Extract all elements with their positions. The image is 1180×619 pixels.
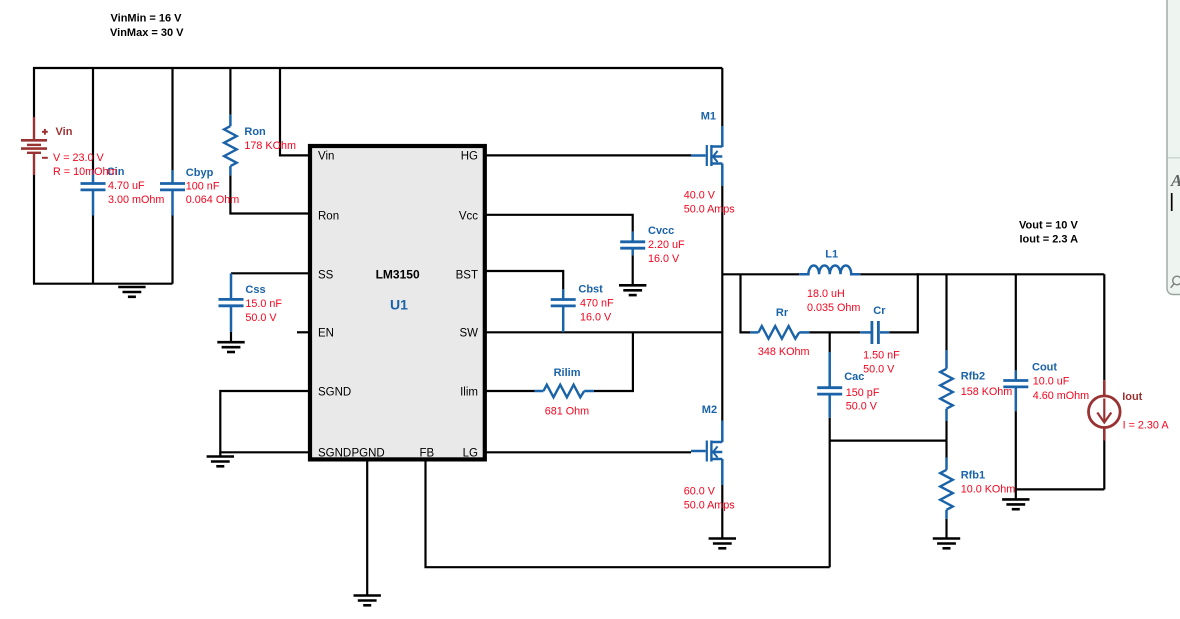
svg-text:Vin: Vin — [56, 126, 73, 138]
svg-text:FB: FB — [420, 448, 435, 460]
svg-text:60.0 V: 60.0 V — [684, 485, 716, 497]
svg-text:V = 23.0 V: V = 23.0 V — [53, 152, 105, 164]
svg-text:50.0 V: 50.0 V — [863, 363, 895, 375]
svg-text:470 nF: 470 nF — [580, 298, 614, 310]
svg-text:10.0 KOhm: 10.0 KOhm — [961, 484, 1016, 496]
svg-text:Rr: Rr — [776, 307, 789, 319]
svg-text:348 KOhm: 348 KOhm — [758, 346, 810, 358]
svg-text:Iout: Iout — [1122, 391, 1142, 403]
svg-text:Rfb2: Rfb2 — [961, 371, 985, 383]
svg-text:50.0 V: 50.0 V — [846, 401, 878, 413]
svg-text:40.0 V: 40.0 V — [684, 190, 716, 202]
svg-text:0.064 Ohm: 0.064 Ohm — [186, 194, 239, 206]
svg-text:Cvcc: Cvcc — [648, 225, 674, 237]
svg-text:HG: HG — [461, 151, 478, 163]
svg-text:Iout = 2.3 A: Iout = 2.3 A — [1020, 233, 1079, 245]
svg-text:PGND: PGND — [352, 448, 385, 460]
svg-text:Ron: Ron — [244, 126, 266, 138]
svg-text:Cbst: Cbst — [578, 284, 603, 296]
svg-text:LG: LG — [463, 448, 478, 460]
svg-text:EN: EN — [318, 327, 334, 339]
svg-text:1.50 nF: 1.50 nF — [863, 350, 900, 362]
svg-text:15.0 nF: 15.0 nF — [245, 298, 282, 310]
svg-text:50.0 Amps: 50.0 Amps — [684, 204, 736, 216]
svg-text:Rilim: Rilim — [554, 367, 581, 379]
svg-text:681 Ohm: 681 Ohm — [545, 405, 589, 417]
svg-text:L1: L1 — [825, 249, 838, 261]
svg-text:I = 2.30 A: I = 2.30 A — [1123, 419, 1170, 431]
svg-text:4.70 uF: 4.70 uF — [108, 180, 145, 192]
svg-text:M1: M1 — [701, 111, 716, 123]
svg-text:SS: SS — [318, 269, 334, 281]
svg-text:10.0 uF: 10.0 uF — [1033, 376, 1070, 388]
svg-text:150 pF: 150 pF — [846, 387, 880, 399]
svg-text:18.0 uH: 18.0 uH — [807, 288, 845, 300]
svg-text:50.0 V: 50.0 V — [245, 312, 277, 324]
svg-text:Cr: Cr — [873, 305, 886, 317]
svg-text:0.035 Ohm: 0.035 Ohm — [807, 302, 860, 314]
svg-text:A: A — [1170, 171, 1180, 190]
svg-text:SGND: SGND — [318, 448, 351, 460]
svg-text:Cout: Cout — [1032, 361, 1057, 373]
svg-text:Cbyp: Cbyp — [186, 167, 214, 179]
svg-text:VinMax = 30 V: VinMax = 30 V — [110, 27, 184, 39]
svg-text:Rfb1: Rfb1 — [961, 470, 985, 482]
svg-text:SGND: SGND — [318, 387, 351, 399]
svg-text:3.00 mOhm: 3.00 mOhm — [108, 194, 164, 206]
svg-text:U1: U1 — [390, 297, 408, 313]
svg-text:R = 10mOhm: R = 10mOhm — [53, 166, 118, 178]
svg-text:4.60 mOhm: 4.60 mOhm — [1033, 390, 1089, 402]
svg-text:M2: M2 — [702, 404, 717, 416]
svg-text:16.0 V: 16.0 V — [580, 312, 612, 324]
svg-text:100 nF: 100 nF — [186, 181, 220, 193]
svg-text:LM3150: LM3150 — [376, 268, 420, 282]
svg-text:SW: SW — [459, 327, 478, 339]
svg-text:Vcc: Vcc — [459, 211, 478, 223]
svg-text:50.0 Amps: 50.0 Amps — [684, 499, 736, 511]
svg-text:2.20 uF: 2.20 uF — [648, 239, 685, 251]
svg-text:Cac: Cac — [844, 371, 864, 383]
svg-text:VinMin = 16 V: VinMin = 16 V — [111, 13, 183, 25]
svg-text:Vin: Vin — [318, 151, 334, 163]
svg-text:16.0 V: 16.0 V — [648, 253, 680, 265]
svg-text:Ilim: Ilim — [460, 387, 478, 399]
svg-text:Ron: Ron — [318, 211, 339, 223]
svg-text:Vout = 10 V: Vout = 10 V — [1019, 219, 1078, 231]
svg-text:158 KOhm: 158 KOhm — [961, 386, 1013, 398]
svg-text:Css: Css — [245, 284, 265, 296]
svg-text:178 KOhm: 178 KOhm — [244, 140, 296, 152]
svg-text:BST: BST — [456, 269, 478, 281]
